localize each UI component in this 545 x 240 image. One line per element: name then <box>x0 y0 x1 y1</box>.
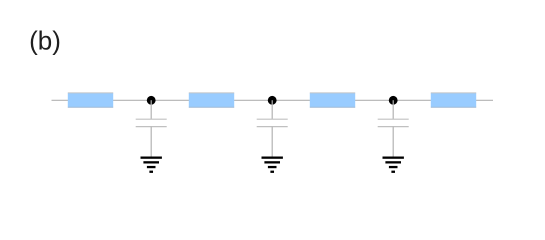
node C (junction dot) <box>389 96 398 105</box>
wire: node C to capacitor C3 <box>392 100 394 119</box>
wire: node B to capacitor C2 <box>271 100 273 119</box>
node B (junction dot) <box>268 96 277 105</box>
ground symbol 2 <box>262 157 283 173</box>
ground symbol 1 <box>141 157 162 173</box>
wire: capacitor C2 to ground <box>271 127 273 157</box>
capacitor C2 <box>257 119 288 126</box>
node A (junction dot) <box>147 96 156 105</box>
resistor R3 <box>310 93 355 107</box>
resistor R2 <box>189 93 234 107</box>
wire: capacitor C1 to ground <box>150 127 152 157</box>
wire: capacitor C3 to ground <box>392 127 394 157</box>
wire: node A to capacitor C1 <box>150 100 152 119</box>
capacitor C1 <box>136 119 167 126</box>
resistor R1 <box>68 93 113 107</box>
resistor R4 <box>431 93 476 107</box>
wire: main horizontal bus <box>52 99 494 101</box>
capacitor C3 <box>378 119 409 126</box>
ground symbol 3 <box>383 157 404 173</box>
svg-text:(b): (b) <box>29 26 61 56</box>
